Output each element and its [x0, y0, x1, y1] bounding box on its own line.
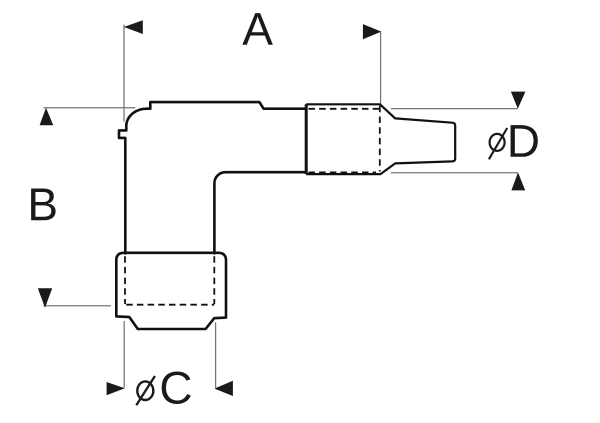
- hidden line: barrel end inside nose (dashed vertical): [379, 106, 381, 172]
- diameter symbol of C (circle): [137, 381, 153, 400]
- hidden line: barrel left inside boot (dashed vertical): [124, 256, 126, 304]
- spark plug cap elbow body outline: [119, 102, 306, 253]
- extension line C left (thin vertical): [123, 321, 125, 388]
- lower boot (pod) outline: [116, 253, 226, 329]
- label A: [242, 13, 273, 45]
- terminal nose outline: [306, 104, 455, 174]
- extension line D bottom (thin horizontal): [391, 172, 518, 174]
- extension line B bottom (thin horizontal): [44, 305, 112, 307]
- hidden line: barrel top inside nose (dashed): [309, 108, 380, 110]
- diameter symbol of D (slash): [489, 128, 507, 159]
- arrow B bottom (points down): [38, 288, 52, 308]
- arrow B top (points up): [40, 108, 54, 126]
- label D: [511, 125, 538, 157]
- diameter symbol of C (slash): [136, 376, 155, 405]
- hidden line: barrel right inside boot (dashed vertical): [213, 256, 215, 304]
- arrow A left (points left): [124, 20, 143, 34]
- arrow D bottom (points up): [511, 172, 525, 190]
- arrow C right (points left): [214, 381, 233, 396]
- arrow D top (points down): [511, 92, 526, 109]
- cap barrel end line (thick vertical): [305, 104, 308, 174]
- arrow C left (points right): [107, 382, 125, 395]
- arrow A right (points right): [363, 24, 382, 39]
- hidden line: boot cavity bottom (dashed horizontal): [126, 304, 214, 306]
- extension line B top (thin horizontal): [44, 107, 136, 109]
- label C: [162, 371, 191, 404]
- extension line A left (thin vertical): [123, 25, 125, 122]
- hidden line: barrel bottom inside nose (dashed): [309, 171, 377, 173]
- extension line A right (thin vertical): [380, 32, 382, 104]
- diameter symbol of D (circle): [490, 134, 505, 151]
- extension line C right (thin vertical): [215, 323, 217, 388]
- label B: [31, 189, 55, 221]
- extension line D top (thin horizontal): [391, 108, 518, 110]
